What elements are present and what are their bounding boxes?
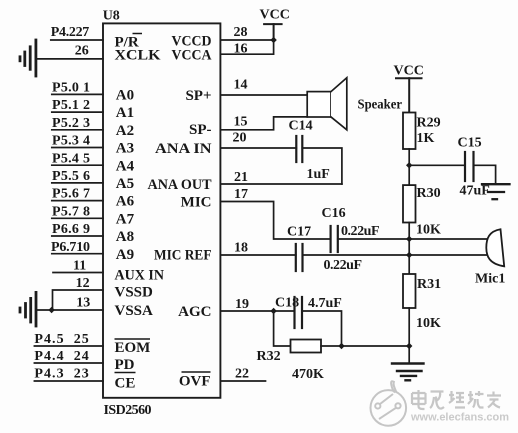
svg-text:P5.7 8: P5.7 8 (52, 204, 90, 219)
pin name EOM (115, 339, 151, 356)
resistor R32 (291, 340, 322, 353)
svg-text:MIC: MIC (181, 195, 212, 211)
svg-text:CE: CE (115, 376, 136, 392)
capacitor C16 (331, 226, 338, 252)
wire pin7 A6 (52, 200, 103, 202)
svg-text:18: 18 (234, 241, 248, 256)
svg-text:C15: C15 (458, 136, 482, 151)
svg-text:21: 21 (234, 170, 248, 185)
junction dot MIC line R30 (406, 236, 412, 242)
svg-text:VCC: VCC (394, 64, 424, 79)
svg-text:17: 17 (234, 187, 248, 202)
svg-text:22: 22 (235, 367, 249, 382)
wire junction to C15 (409, 164, 465, 166)
wire pin12 VSSD (53, 290, 104, 310)
capacitor C17 (296, 244, 303, 271)
wire pin25 EOM (34, 345, 103, 347)
ground GND2 left (20, 292, 36, 326)
svg-text:ANA IN: ANA IN (155, 141, 212, 157)
wire pin18 MIC REF (220, 254, 295, 256)
svg-text:A2: A2 (116, 123, 134, 139)
junction dot MIC REF line R31 (406, 252, 412, 258)
svg-text:470K: 470K (292, 367, 324, 382)
wire pin9 A8 (52, 235, 103, 237)
svg-text:P6.6 9: P6.6 9 (52, 222, 90, 237)
svg-text:R29: R29 (417, 116, 441, 131)
wire C17 to Mic1 (303, 254, 489, 256)
svg-text:P5.6 7: P5.6 7 (52, 187, 90, 202)
wire C18 to junction (302, 311, 342, 346)
svg-text:VSSA: VSSA (115, 303, 154, 319)
wire pin4 A3 (52, 147, 103, 149)
wire C15 to ground (474, 165, 496, 184)
svg-text:10K: 10K (416, 223, 441, 238)
svg-text:A4: A4 (116, 158, 135, 174)
svg-text:14: 14 (234, 78, 248, 93)
svg-text:C14: C14 (289, 119, 313, 134)
wire pin27 P4.2 (51, 39, 103, 41)
svg-text:P5.3 4: P5.3 4 (52, 134, 90, 149)
wire pin24 PD (34, 362, 103, 364)
svg-text:P5.4 5: P5.4 5 (52, 151, 90, 166)
svg-text:1uF: 1uF (307, 167, 330, 182)
svg-text:P5.2 3: P5.2 3 (52, 116, 90, 131)
svg-text:A0: A0 (116, 88, 134, 104)
svg-text:P4.3 23: P4.3 23 (34, 367, 88, 382)
svg-text:A1: A1 (116, 105, 134, 121)
ground GND1 left (20, 40, 36, 76)
svg-text:4.7uF: 4.7uF (308, 296, 342, 311)
wire pin19 AGC (220, 310, 294, 312)
svg-text:P5.0 1: P5.0 1 (52, 81, 90, 96)
pin name CE (115, 373, 136, 392)
svg-text:R30: R30 (417, 186, 441, 201)
svg-text:P4.227: P4.227 (51, 25, 90, 40)
svg-text:VCC: VCC (260, 8, 290, 23)
ground GND3 (482, 184, 510, 199)
svg-text:28: 28 (234, 25, 248, 40)
wire C14 to pin21 (302, 148, 342, 184)
junction dot pin19 AGC (270, 308, 276, 314)
svg-text:R31: R31 (417, 277, 441, 292)
power VCC1 symbol (264, 24, 282, 40)
wire pin16 VCCA (220, 40, 273, 54)
svg-text:A6: A6 (116, 194, 135, 210)
svg-text:19: 19 (235, 297, 249, 312)
wire pin15 SP- (220, 117, 307, 130)
svg-text:A8: A8 (116, 229, 134, 245)
svg-text:10K: 10K (416, 316, 441, 331)
svg-text:www.elecfans.com: www.elecfans.com (410, 412, 509, 424)
wire pin21 ANA OUT (220, 183, 342, 185)
svg-text:OVF: OVF (179, 374, 211, 390)
svg-text:A5: A5 (116, 176, 134, 192)
junction dot R29/R30/C15 (406, 162, 412, 168)
svg-text:C17: C17 (287, 225, 311, 240)
capacitor C14 (296, 136, 302, 162)
svg-text:R32: R32 (257, 349, 281, 364)
pin name OVF (179, 372, 211, 390)
svg-text:ANA OUT: ANA OUT (148, 177, 212, 193)
speaker SP1 (307, 78, 347, 130)
wire R29 to R30 (408, 149, 410, 185)
svg-text:AGC: AGC (178, 304, 211, 320)
svg-text:A7: A7 (116, 211, 135, 227)
svg-text:Mic1: Mic1 (475, 272, 505, 287)
capacitor C15 (465, 152, 474, 181)
svg-text:P6.710: P6.710 (51, 240, 90, 255)
junction dot VSSA ground (48, 307, 54, 313)
wire pin26 XCLK (36, 58, 103, 60)
svg-text:XCLK: XCLK (115, 48, 161, 64)
wire C16 to Mic1 (338, 238, 488, 240)
svg-text:Speaker: Speaker (358, 98, 403, 113)
svg-text:U8: U8 (103, 9, 120, 24)
wire pin17 MIC (220, 202, 330, 240)
microphone Mic1 (486, 229, 504, 266)
svg-text:0.22uF: 0.22uF (341, 224, 380, 239)
svg-text:P5.1 2: P5.1 2 (52, 98, 90, 113)
wire pin1 A0 (52, 93, 103, 95)
junction dot C18/R32 (338, 343, 344, 349)
wire R32 to ground column (321, 345, 409, 347)
svg-text:15: 15 (234, 115, 248, 130)
svg-text:A3: A3 (116, 141, 134, 157)
svg-text:P4.4 24: P4.4 24 (34, 349, 88, 364)
wire pin11 AUX IN (53, 272, 103, 274)
watermark text (412, 390, 501, 409)
svg-text:ISD2560: ISD2560 (104, 403, 152, 418)
IC U8 body (103, 23, 220, 397)
svg-text:12: 12 (76, 276, 90, 291)
svg-text:C18: C18 (275, 296, 299, 311)
junction dot pin28/VCC (270, 37, 276, 43)
wire pin14 SP+ (220, 94, 307, 96)
svg-text:SP+: SP+ (185, 88, 211, 104)
wire junction to R32 (274, 311, 291, 346)
resistor R31 (403, 274, 416, 308)
wire R30 to R31 (408, 223, 410, 275)
svg-text:VSSD: VSSD (115, 284, 154, 300)
wire pin6 A5 (52, 182, 103, 184)
wire pin13 VSSA to ground (36, 309, 103, 311)
svg-text:13: 13 (76, 296, 90, 311)
svg-text:SP-: SP- (189, 122, 212, 138)
svg-text:C16: C16 (322, 206, 346, 221)
wire pin20 ANA IN (220, 147, 296, 149)
pin name P/R pin27 (115, 34, 143, 51)
svg-text:AUX IN: AUX IN (115, 267, 165, 283)
svg-text:20: 20 (233, 131, 247, 146)
watermark logo (371, 381, 407, 425)
resistor R29 (403, 113, 416, 150)
ground GND4 (392, 364, 424, 381)
wire pin8 A7 (52, 217, 103, 219)
capacitor C18 (295, 297, 303, 328)
svg-text:VCCA: VCCA (172, 48, 212, 64)
svg-text:16: 16 (234, 42, 248, 57)
svg-text:0.22uF: 0.22uF (324, 258, 363, 273)
wire pin2 A1 (52, 111, 103, 113)
svg-text:P5.5 6: P5.5 6 (52, 169, 90, 184)
svg-text:P4.5 25: P4.5 25 (34, 332, 88, 347)
svg-text:A9: A9 (116, 247, 134, 263)
wire pin5 A4 (52, 164, 103, 166)
svg-text:MIC REF: MIC REF (154, 248, 212, 264)
wire R31 to ground (408, 308, 410, 364)
wire pin10 A9 (52, 253, 103, 255)
svg-text:11: 11 (73, 259, 86, 274)
svg-text:26: 26 (75, 44, 89, 59)
svg-text:EOM: EOM (115, 340, 151, 356)
wire pin28 VCCD to VCC (220, 39, 273, 41)
svg-text:47uF: 47uF (460, 184, 490, 199)
wire pin3 A2 (52, 129, 103, 131)
junction dot R31/ground (406, 343, 412, 349)
svg-text:1K: 1K (417, 131, 435, 146)
power VCC2 symbol (396, 78, 422, 112)
resistor R30 (403, 185, 416, 222)
wire pin22 OVF stub (220, 380, 265, 382)
svg-text:PD: PD (115, 357, 135, 373)
wire pin23 CE (34, 380, 103, 382)
